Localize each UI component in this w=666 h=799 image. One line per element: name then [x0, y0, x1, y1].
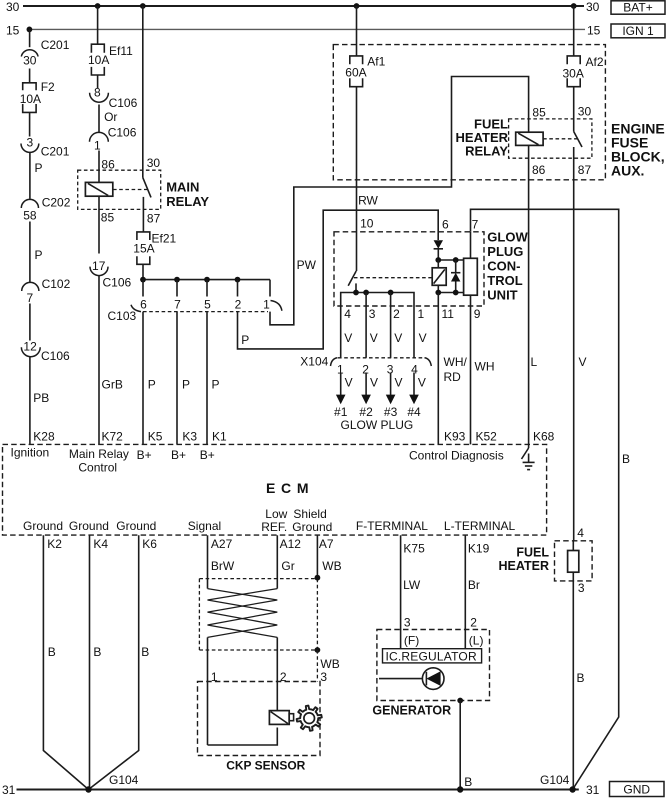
wire P C103-7 to ECM K3	[177, 312, 197, 445]
svg-text:V: V	[579, 355, 587, 369]
wire LW K75 to generator F	[401, 535, 425, 648]
svg-text:86: 86	[101, 158, 115, 172]
svg-text:V: V	[419, 331, 427, 345]
fuel heater relay label	[456, 117, 509, 159]
svg-text:P: P	[35, 161, 43, 175]
wire B glow pin7 ground to G104	[471, 209, 631, 789]
svg-text:C106: C106	[109, 96, 138, 110]
wire rail 30	[6, 0, 600, 14]
node bus pin2	[388, 290, 394, 296]
glow unit pin 11 wire WH/RD to ECM K93	[438, 293, 467, 445]
connector C103	[108, 301, 282, 324]
wire fuel heater pin3 B to G104	[573, 572, 585, 789]
svg-text:G104: G104	[540, 773, 570, 787]
svg-text:V: V	[370, 331, 378, 345]
svg-text:B+: B+	[137, 448, 152, 462]
main relay 87 stub	[143, 197, 160, 232]
svg-text:30: 30	[147, 156, 161, 170]
svg-text:C106: C106	[41, 349, 70, 363]
wire Af1 feed	[356, 6, 358, 56]
fuel heater relay link dashes	[543, 138, 578, 140]
main relay switch blade	[143, 178, 151, 198]
ground rail 31	[2, 783, 600, 797]
svg-text:5: 5	[204, 298, 211, 312]
svg-text:Ground: Ground	[292, 520, 332, 534]
svg-text:E C M: E C M	[266, 480, 309, 496]
svg-text:Control: Control	[78, 461, 117, 475]
svg-text:RELAY: RELAY	[465, 144, 508, 159]
CKP internal loop	[208, 728, 278, 746]
shield dashed box	[199, 579, 317, 650]
CKP pickup element	[269, 711, 293, 725]
svg-text:10A: 10A	[20, 92, 41, 106]
wire P C103-2 to glow pin 6	[238, 210, 439, 349]
node on rail 30 at Af2	[571, 3, 577, 9]
glow unit resistor block	[464, 218, 479, 296]
wire B K4 to G104	[90, 535, 109, 789]
svg-text:B+: B+	[171, 448, 186, 462]
fuse F2 10A	[20, 80, 55, 112]
svg-text:K5: K5	[148, 430, 163, 444]
svg-text:K72: K72	[102, 430, 124, 444]
svg-text:6: 6	[442, 218, 449, 232]
node G104 right	[540, 773, 576, 793]
svg-text:Signal: Signal	[188, 519, 221, 533]
svg-text:87: 87	[147, 212, 161, 226]
node bus pin7	[174, 277, 180, 283]
wire	[29, 69, 31, 83]
node on rail 30 at Ef11	[95, 3, 101, 9]
svg-text:V: V	[344, 331, 352, 345]
node	[435, 290, 441, 296]
svg-text:B: B	[48, 645, 56, 659]
wire Br K19 to generator L	[465, 535, 489, 648]
wire fuel heater pin4 stub	[572, 541, 574, 551]
glow unit flyback diode	[451, 260, 460, 293]
node rail 15 left end	[27, 27, 33, 33]
glow plug control unit label	[487, 230, 528, 303]
fuse Ef21 15A	[133, 232, 176, 265]
svg-text:30: 30	[578, 105, 592, 119]
svg-text:K1: K1	[212, 430, 227, 444]
node on rail 30 at Af1	[354, 3, 360, 9]
svg-text:K75: K75	[403, 542, 425, 556]
svg-text:LW: LW	[403, 578, 421, 592]
node switch on bus	[353, 290, 359, 296]
connector C201 pin 3	[21, 136, 70, 159]
wire P	[30, 222, 43, 283]
svg-text:C103: C103	[108, 309, 137, 323]
CKP sensor box	[198, 682, 321, 756]
svg-text:A12: A12	[280, 537, 302, 551]
node bus pin3	[363, 290, 369, 296]
wire relay 30 contact from rail 30	[143, 6, 161, 178]
glow unit pin 3 wire	[366, 293, 378, 358]
svg-text:WH: WH	[475, 360, 495, 374]
svg-text:10: 10	[360, 217, 374, 231]
wire P C103-6 to ECM K5	[143, 312, 163, 445]
svg-text:K93: K93	[444, 430, 466, 444]
svg-text:8: 8	[94, 86, 101, 100]
glow plug arrow 2	[359, 373, 378, 420]
svg-text:P: P	[212, 378, 220, 392]
fuel heater relay 30 contact	[574, 87, 592, 132]
node	[435, 257, 441, 263]
svg-text:K28: K28	[33, 430, 55, 444]
svg-text:85: 85	[532, 106, 546, 120]
svg-text:6: 6	[140, 298, 147, 312]
svg-text:11: 11	[442, 307, 455, 321]
node bus pin2	[235, 277, 241, 283]
wire	[29, 304, 31, 341]
svg-text:IGN 1: IGN 1	[622, 24, 654, 38]
svg-text:C106: C106	[103, 276, 132, 290]
wire GrB to ECM K72	[99, 276, 123, 445]
svg-text:Main Relay: Main Relay	[69, 447, 129, 461]
main relay label	[166, 180, 209, 210]
svg-text:UNIT: UNIT	[487, 288, 517, 303]
svg-text:B: B	[577, 671, 585, 685]
svg-text:(F): (F)	[404, 634, 419, 648]
main relay 85 wire	[99, 196, 114, 253]
svg-text:9: 9	[474, 307, 481, 321]
engine fuse block label	[611, 121, 665, 179]
svg-text:Ground: Ground	[23, 519, 63, 533]
svg-text:K2: K2	[47, 537, 62, 551]
wire CKP pin1	[208, 637, 218, 745]
svg-text:2: 2	[235, 298, 242, 312]
svg-text:B: B	[93, 645, 101, 659]
node shield bottom	[315, 647, 321, 653]
main relay link dashes	[113, 189, 147, 191]
glow plug arrow 1	[334, 373, 353, 420]
fuel heater relay coil	[516, 106, 546, 146]
svg-text:K68: K68	[533, 430, 555, 444]
wire B generator to ground rail	[460, 701, 472, 790]
svg-text:F-TERMINAL: F-TERMINAL	[356, 519, 428, 533]
svg-text:15: 15	[6, 24, 20, 38]
svg-text:Or: Or	[104, 110, 117, 124]
wire Ef11 feed from rail 30	[97, 6, 99, 44]
wire P	[30, 152, 43, 199]
svg-text:7: 7	[472, 218, 479, 232]
svg-text:F2: F2	[41, 80, 55, 94]
svg-text:L: L	[531, 355, 538, 369]
C103 pin 2 stub	[235, 280, 242, 312]
svg-text:P: P	[35, 248, 43, 262]
glow unit internal bottom net	[438, 292, 463, 294]
connector C201 pin 30	[21, 38, 69, 68]
svg-text:V: V	[345, 376, 353, 390]
wire to main relay coil 86	[99, 151, 115, 183]
svg-text:K6: K6	[142, 537, 157, 551]
svg-text:B: B	[464, 775, 472, 789]
IGN 1 box	[611, 24, 665, 38]
wire	[97, 75, 99, 89]
svg-text:2: 2	[393, 307, 400, 321]
svg-text:17: 17	[92, 259, 106, 273]
svg-text:BAT+: BAT+	[623, 1, 652, 15]
svg-text:15: 15	[587, 24, 601, 38]
fuel heater relay box	[509, 119, 592, 158]
svg-text:12: 12	[23, 340, 37, 354]
fuel heater relay 86 wire L to ECM K68	[529, 145, 555, 444]
svg-text:G104: G104	[109, 773, 139, 787]
svg-text:7: 7	[174, 298, 181, 312]
svg-text:REF.: REF.	[261, 520, 287, 534]
svg-text:7: 7	[26, 291, 33, 305]
glow plug arrow 4	[407, 373, 426, 420]
svg-text:10A: 10A	[88, 53, 109, 67]
svg-text:K19: K19	[468, 542, 490, 556]
glow unit pin 1 wire	[414, 306, 427, 358]
svg-text:C102: C102	[42, 277, 71, 291]
svg-text:Ef21: Ef21	[152, 232, 177, 246]
wire	[29, 112, 31, 136]
svg-text:Af1: Af1	[367, 55, 385, 69]
B+ bus from Ef21	[143, 279, 270, 281]
svg-text:(L): (L)	[469, 634, 484, 648]
fuse Af2 30A	[563, 55, 604, 87]
ECM box	[3, 444, 547, 535]
generator box	[377, 630, 490, 701]
main relay coil U1	[85, 182, 112, 196]
svg-text:4: 4	[344, 307, 351, 321]
svg-text:MAIN: MAIN	[166, 180, 199, 195]
svg-text:31: 31	[2, 783, 16, 797]
glow unit internal top net	[438, 259, 463, 261]
svg-text:PW: PW	[297, 258, 317, 272]
generator diode	[379, 668, 444, 690]
svg-text:WB: WB	[320, 657, 339, 671]
svg-text:3: 3	[320, 670, 327, 684]
ECM K68 internal ground switch	[522, 444, 529, 462]
C103 pin 7 stub	[174, 280, 181, 312]
node bus pin5	[204, 277, 210, 283]
glow unit pin 4 wire to glow plug 1	[341, 306, 353, 358]
wire PW C103-1 to fuel heater relay 85	[270, 77, 529, 325]
connector C106 pin 12	[21, 340, 70, 364]
svg-text:C202: C202	[42, 196, 71, 210]
svg-text:85: 85	[101, 211, 115, 225]
svg-text:V: V	[370, 376, 378, 390]
svg-text:GND: GND	[623, 783, 650, 797]
svg-text:Low: Low	[265, 507, 287, 521]
glow plug control unit box	[334, 232, 484, 306]
glow plug arrow 3	[384, 373, 403, 420]
svg-text:C201: C201	[41, 145, 70, 159]
wire Gr A12 to CKP coil	[277, 535, 301, 588]
svg-text:Ground: Ground	[116, 519, 156, 533]
svg-text:PB: PB	[33, 391, 49, 405]
svg-text:1: 1	[418, 307, 425, 321]
ECM pin label Main Relay Control	[69, 447, 129, 475]
svg-text:L-TERMINAL: L-TERMINAL	[444, 519, 516, 533]
ECM bottom labels Ground x3	[23, 519, 156, 533]
svg-text:GENERATOR: GENERATOR	[372, 704, 451, 718]
glow unit pin 2 wire	[391, 293, 403, 358]
wire PB to ECM K28	[30, 357, 55, 445]
svg-text:PLUG: PLUG	[487, 244, 523, 259]
shield drain WB to CKP pin 3	[317, 650, 339, 684]
svg-text:Shield: Shield	[293, 507, 326, 521]
node bus pin6	[140, 277, 146, 283]
node generator ground tap	[457, 698, 463, 704]
wire BrW A27 to CKP coil	[208, 535, 235, 588]
svg-text:P: P	[182, 378, 190, 392]
node on rail 30 at main relay feed	[140, 3, 146, 9]
svg-text:RD: RD	[444, 370, 462, 384]
svg-text:3: 3	[404, 616, 411, 630]
svg-text:HEATER: HEATER	[499, 559, 549, 573]
glow unit relay coil	[432, 260, 446, 293]
svg-text:Br: Br	[468, 578, 480, 592]
glow unit pin 6 diode	[434, 218, 449, 261]
svg-text:31: 31	[586, 783, 600, 797]
fuel heater label	[499, 546, 550, 574]
svg-text:P: P	[241, 333, 249, 347]
GND box	[610, 782, 665, 797]
svg-text:Ef11: Ef11	[109, 44, 133, 58]
connector C106 pin 17	[90, 259, 132, 290]
wire Af1 to glow switch pin 10	[357, 87, 374, 271]
svg-text:2: 2	[470, 616, 477, 630]
main relay box	[78, 170, 161, 209]
glow unit link dashes	[354, 277, 432, 279]
node	[453, 290, 459, 296]
svg-text:AUX.: AUX.	[611, 163, 644, 179]
wire P C103-5 to ECM K1	[207, 312, 227, 445]
fuse Ef11 10A	[88, 44, 133, 75]
svg-text:3: 3	[369, 307, 376, 321]
fuel heater relay switch blade	[574, 132, 582, 148]
wire ignition feed from rail 15	[29, 29, 31, 47]
CKP gear icon	[297, 706, 322, 731]
ECM bottom label Shield Ground	[292, 507, 332, 534]
svg-text:BrW: BrW	[211, 559, 235, 573]
svg-text:3: 3	[26, 136, 33, 150]
svg-text:15A: 15A	[133, 242, 154, 256]
svg-text:CKP SENSOR: CKP SENSOR	[226, 759, 305, 773]
svg-text:TROL: TROL	[487, 273, 522, 288]
svg-text:IC.REGULATOR: IC.REGULATOR	[386, 649, 477, 663]
svg-text:A27: A27	[211, 537, 233, 551]
svg-text:X104: X104	[300, 355, 328, 369]
svg-text:GLOW: GLOW	[487, 230, 528, 245]
connector C202 pin 58	[21, 196, 70, 223]
svg-text:58: 58	[23, 209, 37, 223]
svg-text:30: 30	[586, 0, 600, 14]
ground symbol at K68	[523, 462, 535, 469]
svg-text:Ground: Ground	[69, 519, 109, 533]
svg-text:CON-: CON-	[487, 259, 520, 274]
C103 pin 6 stub	[140, 280, 147, 312]
node G104 left	[85, 773, 138, 793]
svg-text:30: 30	[23, 54, 37, 68]
fuel heater relay 87 stub / wire V	[574, 147, 592, 541]
svg-text:C201: C201	[41, 38, 70, 52]
svg-text:RELAY: RELAY	[166, 194, 209, 209]
svg-text:P: P	[148, 378, 156, 392]
svg-text:1: 1	[263, 298, 270, 312]
node shield top	[315, 575, 321, 581]
svg-text:Gr: Gr	[281, 559, 294, 573]
svg-text:4: 4	[577, 526, 584, 540]
svg-text:B: B	[622, 452, 630, 466]
svg-text:K4: K4	[93, 537, 108, 551]
IC regulator box	[383, 649, 482, 664]
svg-text:3: 3	[578, 581, 585, 595]
svg-text:WB: WB	[322, 559, 341, 573]
ECM bottom label Low REF.	[261, 507, 287, 534]
wire B K6 to G104	[89, 535, 158, 789]
glow unit switch blade	[348, 271, 356, 286]
fuse Af1 60A	[345, 55, 385, 87]
svg-text:Control Diagnosis: Control Diagnosis	[409, 449, 504, 463]
svg-text:V: V	[418, 376, 426, 390]
svg-text:FUEL: FUEL	[516, 546, 549, 560]
engine fuse block aux box	[333, 45, 605, 180]
wire B K2 to G104	[43, 535, 88, 789]
connector C106 pin 8 / pin 1 pair	[90, 86, 138, 153]
fuel heater box	[555, 541, 593, 581]
svg-text:C106: C106	[108, 126, 137, 140]
svg-text:30: 30	[6, 0, 20, 14]
svg-text:86: 86	[532, 163, 546, 177]
C103 pin 1 stub	[263, 280, 270, 312]
wire CKP pin2	[277, 637, 287, 710]
svg-text:Af2: Af2	[586, 55, 604, 69]
BAT+ box	[611, 1, 665, 15]
svg-text:RW: RW	[358, 194, 378, 208]
wire WB A7 shield	[317, 535, 341, 577]
svg-text:GrB: GrB	[102, 378, 123, 392]
svg-text:30A: 30A	[563, 67, 584, 81]
connector X104	[300, 355, 431, 369]
wire rail 15	[6, 24, 601, 38]
svg-text:B+: B+	[200, 448, 215, 462]
glow unit pin 9 wire WH to ECM K52	[471, 295, 498, 444]
svg-text:Ignition: Ignition	[11, 446, 50, 460]
C103 pin 5 stub	[204, 280, 211, 312]
node generator B at rail	[457, 786, 463, 792]
glow unit output bus	[341, 293, 414, 307]
svg-text:V: V	[394, 331, 402, 345]
svg-text:60A: 60A	[345, 66, 366, 80]
svg-text:V: V	[395, 376, 403, 390]
svg-text:K3: K3	[182, 430, 197, 444]
node	[453, 257, 459, 263]
fuel heater resistor	[568, 551, 579, 573]
svg-text:B: B	[141, 645, 149, 659]
wire Ef21 to bus	[142, 264, 144, 279]
wire Af2 feed	[573, 6, 575, 56]
svg-text:WH/: WH/	[444, 355, 468, 369]
svg-text:87: 87	[578, 163, 592, 177]
svg-text:GLOW PLUG: GLOW PLUG	[341, 418, 414, 432]
glow unit switch lower stub	[355, 283, 357, 292]
CKP coil transformer	[208, 589, 278, 638]
svg-text:K52: K52	[476, 430, 498, 444]
svg-text:1: 1	[94, 139, 101, 153]
svg-text:A7: A7	[319, 537, 334, 551]
connector C102 pin 7	[22, 277, 71, 305]
